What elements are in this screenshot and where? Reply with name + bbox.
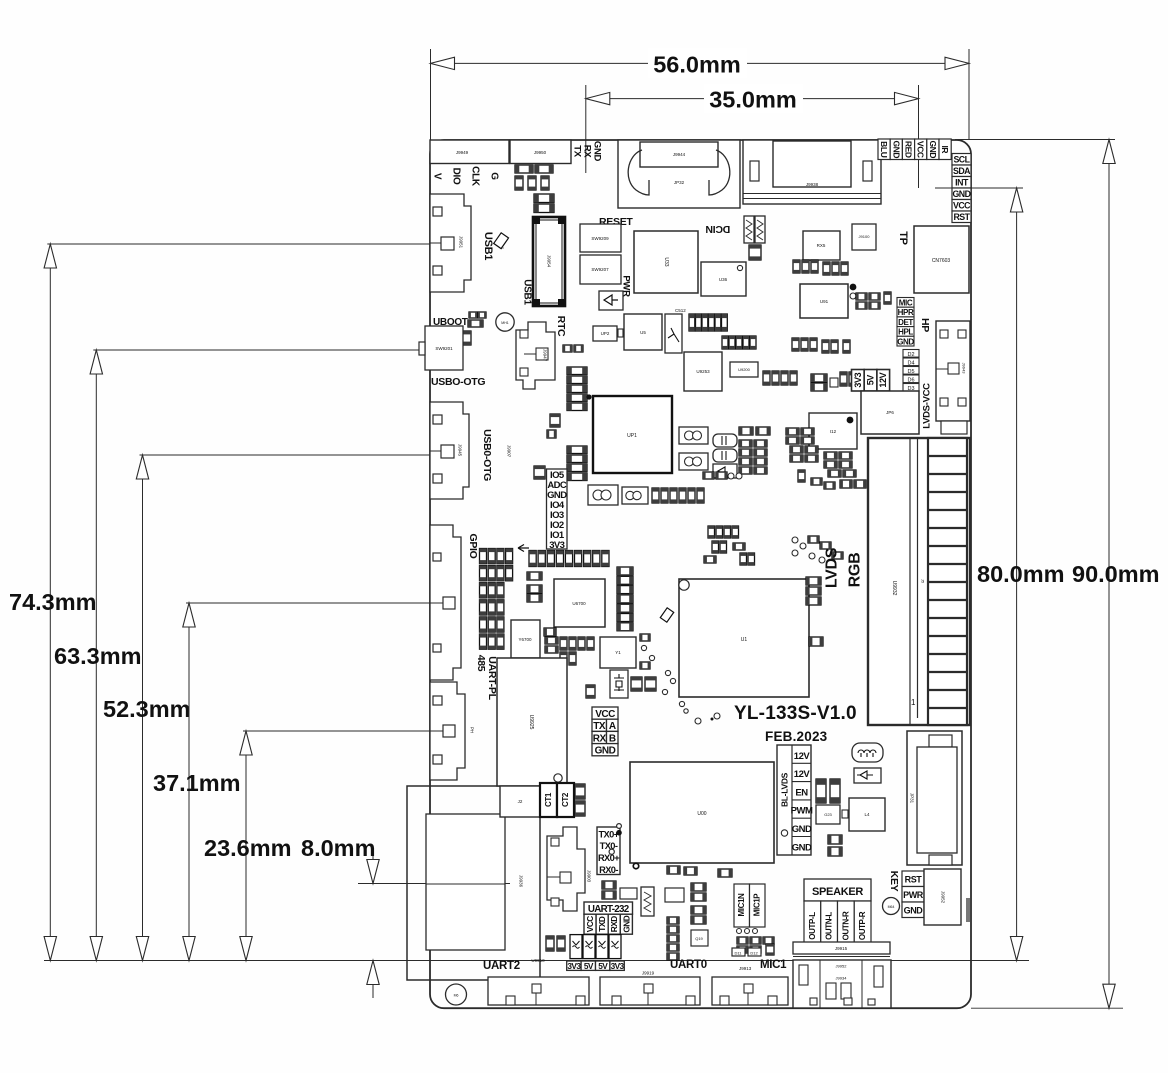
svg-text:RX5: RX5 — [817, 243, 826, 248]
connector J9939 — [407, 786, 540, 980]
capacitor row C95x — [793, 260, 848, 275]
svg-text:A: A — [609, 721, 616, 732]
capacitor row C51x — [722, 336, 756, 349]
svg-text:UP2: UP2 — [601, 331, 610, 336]
svg-text:J9913: J9913 — [739, 966, 752, 971]
connector J9903 — [547, 827, 592, 911]
capacitor pair C9x — [631, 670, 676, 691]
svg-text:J9945: J9945 — [458, 444, 463, 457]
test point TP9 — [850, 284, 857, 299]
svg-text:5V: 5V — [866, 375, 876, 386]
chip UP1 — [593, 396, 672, 473]
svg-text:BLU: BLU — [879, 141, 889, 158]
connector BL-LVDS — [777, 745, 813, 855]
svg-text:B: B — [609, 733, 616, 744]
label RESET — [599, 216, 633, 228]
svg-text:D11: D11 — [734, 951, 742, 956]
stack T004 — [567, 367, 587, 411]
capacitor C09 — [544, 628, 556, 636]
chip U9925 — [497, 658, 567, 786]
svg-text:RST: RST — [953, 212, 970, 222]
svg-text:GND: GND — [595, 746, 616, 757]
svg-text:TX: TX — [572, 145, 583, 158]
svg-text:J9943: J9943 — [962, 363, 967, 375]
connector J9932 LVDS — [868, 438, 970, 725]
pin label TXD uart — [596, 914, 608, 934]
label J9907 — [507, 445, 512, 458]
chip CN7603 — [914, 226, 969, 293]
label UART-232 — [584, 902, 633, 915]
diode DU9 — [534, 194, 554, 203]
svg-text:GND: GND — [928, 140, 938, 158]
svg-text:J9944: J9944 — [673, 152, 686, 157]
pin label V — [432, 173, 443, 180]
svg-text:RX: RX — [582, 145, 593, 159]
dimension 80.0mm — [977, 188, 1065, 961]
svg-text:I12: I12 — [830, 429, 837, 434]
switch SW9207 — [580, 255, 621, 284]
connector J9919 UART0 — [600, 971, 700, 1006]
svg-text:U36: U36 — [719, 277, 728, 282]
svg-text:J9919: J9919 — [642, 971, 655, 976]
pin label TX — [572, 145, 583, 158]
pin label GND — [927, 139, 939, 160]
pin label IO4 — [550, 500, 565, 511]
svg-text:RX0-: RX0- — [599, 865, 618, 875]
pin label DIO — [451, 168, 462, 185]
pin label BLU — [878, 139, 890, 160]
resistor cluster R401x — [824, 452, 856, 477]
label TP — [897, 231, 909, 244]
resistor R9302 — [691, 883, 706, 901]
dimension 63.3mm — [54, 350, 142, 961]
resistor R275 — [811, 374, 838, 391]
pin label 5V — [864, 370, 877, 392]
resistor cluster R40x — [792, 338, 850, 353]
hole CT — [554, 774, 562, 782]
svg-text:J9952: J9952 — [836, 964, 848, 969]
svg-text:USBO-OTG: USBO-OTG — [431, 376, 485, 388]
svg-text:TX0+: TX0+ — [598, 829, 619, 839]
svg-text:TXD: TXD — [597, 916, 607, 932]
dimension 8.0mm extension line — [358, 883, 510, 885]
svg-text:J9903: J9903 — [587, 870, 592, 883]
svg-text:J9954: J9954 — [547, 255, 552, 268]
part diag2 — [660, 608, 673, 622]
label GPIO — [467, 533, 479, 558]
svg-text:63.3mm: 63.3mm — [54, 643, 142, 669]
label J9946 — [500, 237, 505, 250]
svg-text:DIO: DIO — [451, 168, 462, 185]
table VCC TX RX GND — [592, 707, 618, 757]
mount hole M6 — [446, 984, 467, 1005]
resistor column R23x — [667, 917, 679, 960]
chip L4 — [849, 798, 885, 831]
svg-text:SW9207: SW9207 — [591, 267, 609, 272]
switch SW9209 — [580, 224, 621, 252]
battery holder J9947 — [516, 322, 555, 389]
svg-text:M64: M64 — [888, 905, 895, 909]
resistor R5 — [586, 685, 595, 698]
svg-text:RED: RED — [904, 141, 914, 158]
svg-text:UART-PL: UART-PL — [486, 656, 498, 700]
dimension 35.0mm extension line left — [585, 85, 587, 173]
resistor R02 — [718, 869, 732, 877]
svg-text:TP: TP — [897, 231, 909, 244]
inductor L13 — [641, 887, 654, 916]
pin label GND — [890, 139, 902, 160]
svg-text:INT: INT — [955, 178, 969, 188]
dimension 8.0mm — [301, 835, 379, 998]
svg-text:D5: D5 — [907, 369, 914, 375]
connector J9954 — [533, 217, 565, 306]
svg-text:RX: RX — [593, 733, 607, 744]
svg-text:OUTP-R: OUTP-R — [858, 911, 867, 940]
chip U9253 — [684, 352, 722, 391]
svg-text:MH1: MH1 — [501, 321, 508, 325]
dimension 80.0mm top extension — [935, 187, 1023, 189]
svg-text:UP1: UP1 — [627, 433, 637, 439]
svg-text:OUTP-L: OUTP-L — [808, 912, 817, 940]
chip U9300 — [620, 888, 637, 899]
chip Q19 — [691, 930, 708, 946]
stack RP34 — [567, 446, 587, 481]
resistor T641 — [469, 312, 486, 318]
board outline — [430, 140, 971, 1008]
shadow edge — [966, 898, 970, 922]
svg-text:JP31: JP31 — [910, 793, 915, 804]
svg-text:J2: J2 — [518, 799, 523, 804]
connector J9952 side — [924, 869, 961, 925]
dot via UP1 — [586, 394, 591, 399]
svg-text:U9932: U9932 — [891, 581, 897, 596]
connector UART-PL header — [430, 682, 475, 780]
via TX0 — [609, 824, 640, 870]
svg-text:U9925: U9925 — [528, 715, 534, 730]
via top-left U1 — [679, 580, 689, 590]
dimension 56.0mm extension line right — [968, 49, 970, 140]
vias near U1 bottom — [662, 689, 720, 724]
svg-text:GND: GND — [904, 906, 924, 916]
connector GPIO header — [430, 525, 461, 680]
resistor row R92x — [763, 371, 797, 385]
part diag — [494, 233, 509, 249]
pin label ADC — [547, 480, 567, 491]
svg-text:J9949: J9949 — [456, 150, 469, 155]
label PWR — [621, 275, 632, 297]
diode D9 — [854, 768, 881, 783]
connector U9910 UART2 — [488, 958, 589, 1005]
pin label GND — [547, 490, 567, 501]
dimension 90.0mm top extension — [955, 139, 1115, 141]
svg-text:L4: L4 — [864, 812, 870, 817]
label USB1 rotated — [522, 279, 533, 305]
svg-text:V: V — [432, 173, 443, 180]
label MIC1N — [734, 884, 750, 927]
capacitor cluster C41x — [798, 470, 835, 489]
resistor RP1 — [602, 891, 616, 899]
mount hole MH1 — [496, 313, 514, 331]
svg-text:TX0-: TX0- — [600, 841, 618, 851]
dimension 37.1mm — [153, 603, 241, 961]
dimension baseline — [44, 960, 1029, 962]
svg-text:GND: GND — [952, 189, 970, 199]
svg-text:OUTN-L: OUTN-L — [825, 912, 834, 940]
svg-text:J9950: J9950 — [534, 150, 547, 155]
svg-text:RX0+: RX0+ — [598, 853, 620, 863]
label MIC1 — [760, 959, 787, 971]
svg-text:OUTN-R: OUTN-R — [841, 911, 850, 940]
pin label INT — [952, 177, 971, 189]
dimension 35.0mm extension line right — [918, 85, 920, 188]
transistor Q512 — [665, 314, 682, 353]
pin label VCC uart — [584, 914, 596, 934]
svg-text:J9947: J9947 — [543, 349, 548, 362]
connector J9938 — [743, 140, 881, 204]
diode D6 — [903, 375, 919, 383]
inductor L9505 — [755, 216, 765, 243]
svg-text:CLK: CLK — [470, 166, 481, 187]
svg-text:PWR: PWR — [903, 890, 924, 900]
pin label GND uart — [620, 914, 632, 934]
svg-text:HP: HP — [919, 318, 931, 332]
pin label RX0+ — [598, 853, 620, 863]
svg-text:U00: U00 — [697, 811, 706, 817]
dimension 63.3mm extension line — [93, 349, 445, 351]
crystal Y6700 — [511, 620, 540, 658]
svg-text:J9907: J9907 — [507, 445, 512, 458]
svg-text:GND: GND — [792, 824, 812, 835]
svg-text:CN7603: CN7603 — [932, 258, 951, 264]
capacitor T4001 — [739, 427, 770, 435]
label USB0-OTG — [431, 376, 485, 388]
inductor coil row — [588, 485, 618, 505]
pin label IR — [939, 139, 951, 160]
svg-text:VCC: VCC — [953, 201, 971, 211]
svg-text:3V3: 3V3 — [549, 540, 564, 551]
chip UP2 — [593, 326, 623, 341]
transistor Q9300 — [665, 888, 684, 902]
svg-text:3V3: 3V3 — [611, 961, 625, 971]
label C512 — [675, 308, 686, 313]
svg-text:CT2: CT2 — [561, 792, 570, 807]
svg-text:1: 1 — [911, 698, 916, 707]
svg-text:LVDS: LVDS — [824, 547, 841, 588]
svg-text:3V3: 3V3 — [567, 961, 581, 971]
dimension 52.3mm extension line — [140, 454, 449, 456]
dimension 37.1mm extension line — [186, 602, 448, 604]
label DCIN — [706, 223, 730, 235]
pin label GND — [592, 141, 603, 162]
label SPEAKER — [804, 879, 871, 901]
pin label VCC — [915, 139, 927, 160]
svg-text:UART-232: UART-232 — [588, 904, 630, 915]
svg-text:J9952: J9952 — [941, 891, 946, 904]
svg-text:DCIN: DCIN — [706, 223, 730, 235]
jumper CT1 — [540, 783, 557, 817]
svg-text:U9200: U9200 — [738, 367, 751, 372]
connector JP31 — [907, 731, 962, 865]
svg-text:RST: RST — [905, 875, 923, 885]
svg-text:CT1: CT1 — [544, 792, 553, 807]
diode D2 — [903, 350, 919, 358]
svg-text:G: G — [489, 172, 500, 180]
svg-text:LVDS-VCC: LVDS-VCC — [922, 383, 933, 429]
capacitor C140 — [828, 835, 842, 856]
svg-text:RTC: RTC — [555, 316, 567, 337]
inductor coil top — [852, 743, 883, 762]
pin label RX — [582, 145, 593, 159]
svg-text:SW9201: SW9201 — [435, 346, 453, 351]
pin label GND — [952, 188, 971, 200]
capacitor C947 — [534, 466, 545, 479]
svg-text:U33: U33 — [663, 257, 669, 266]
pin label G — [489, 172, 500, 180]
svg-text:RXD: RXD — [609, 916, 619, 933]
pin label 5V power — [581, 961, 595, 971]
parts above U1 — [704, 526, 755, 565]
svg-text:RGB: RGB — [847, 553, 864, 588]
svg-text:J9951: J9951 — [459, 236, 464, 249]
chip U33 — [634, 231, 698, 293]
svg-text:M6: M6 — [454, 994, 459, 998]
svg-text:SPEAKER: SPEAKER — [812, 886, 863, 898]
svg-text:12V: 12V — [878, 372, 888, 387]
pin label IO3 — [550, 510, 564, 521]
chip U5 — [624, 314, 662, 350]
pin label SDA — [952, 165, 971, 177]
chip U6700 — [554, 579, 605, 627]
label UART2 — [483, 960, 520, 972]
switch SW9201 — [419, 326, 463, 370]
svg-text:KEY: KEY — [888, 871, 900, 892]
crystal X1 — [610, 670, 628, 698]
resistor RS61b — [535, 165, 553, 173]
label YL-133S-V1.0 — [734, 703, 857, 724]
resistor R93 — [563, 345, 583, 352]
svg-text:23.6mm: 23.6mm — [204, 835, 292, 861]
connector J9949 — [430, 140, 509, 164]
label LVDS — [824, 547, 841, 588]
label KEY — [888, 871, 900, 892]
pin label 3V3 power — [567, 961, 582, 971]
svg-text:U1: U1 — [741, 637, 748, 643]
pin label CLK — [470, 166, 481, 187]
chip U36 — [701, 262, 746, 296]
connector J9944 JP32 — [618, 140, 740, 208]
label UART0 — [670, 959, 707, 971]
svg-text:JP32: JP32 — [674, 180, 685, 185]
capacitor pair CD — [703, 472, 742, 479]
label MIC1P — [750, 884, 766, 927]
svg-text:VCC: VCC — [585, 916, 595, 933]
svg-text:VCC: VCC — [595, 709, 615, 720]
svg-text:GPIO: GPIO — [467, 533, 479, 558]
svg-text:Y1: Y1 — [615, 650, 621, 655]
label HP — [919, 318, 931, 332]
svg-text:YL-133S-V1.0: YL-133S-V1.0 — [734, 703, 857, 724]
diode D4 — [903, 358, 919, 366]
connector J9950 — [510, 140, 571, 164]
pin label 12V — [877, 370, 890, 392]
svg-text:3V3: 3V3 — [853, 372, 863, 387]
pin label GND key — [902, 902, 924, 918]
svg-text:Y6700: Y6700 — [518, 637, 532, 642]
dimension 90.0mm — [1072, 140, 1160, 1009]
resistor cluster R340 — [739, 440, 767, 474]
svg-text:USB1: USB1 — [522, 279, 533, 305]
svg-text:U5: U5 — [640, 330, 646, 335]
dimension 23.6mm extension line — [243, 730, 448, 732]
pin label VCC — [952, 200, 971, 212]
jumper CT2 — [557, 783, 574, 817]
label UBOOT — [433, 317, 468, 328]
svg-text:MIC1N: MIC1N — [737, 893, 746, 917]
parts below MIC — [737, 929, 775, 956]
chip G23 — [816, 805, 848, 824]
svg-text:C512: C512 — [675, 308, 686, 313]
inductor L8b — [679, 453, 708, 470]
label 485 — [475, 655, 487, 672]
pin label TX0- — [600, 841, 618, 851]
label USB0-OTG rotated — [481, 429, 493, 481]
inductor L9504 — [744, 216, 754, 243]
svg-text:GND: GND — [897, 337, 914, 346]
connector J9913 MIC1 — [712, 977, 788, 1005]
pin label RX0- — [599, 865, 618, 875]
svg-text:8.0mm: 8.0mm — [301, 835, 375, 861]
capacitor C9004 — [840, 480, 866, 488]
pin label IO2 — [550, 520, 564, 531]
pin label RXD uart — [608, 914, 620, 934]
diode D11 D12 — [732, 948, 761, 956]
svg-text:90.0mm: 90.0mm — [1072, 561, 1160, 587]
resistor T104 — [806, 577, 821, 605]
chip U9200 — [730, 362, 758, 377]
svg-text:U6700: U6700 — [572, 601, 586, 606]
svg-text:J9936: J9936 — [519, 875, 524, 888]
diode D3 — [903, 384, 919, 392]
diode D5 — [903, 367, 919, 375]
chip Y1 — [600, 637, 636, 668]
svg-text:G23: G23 — [824, 812, 832, 817]
capacitor row C50x — [689, 314, 727, 331]
capacitor C92x — [840, 372, 856, 386]
connector J9945 USB0-OTG — [430, 402, 469, 499]
svg-text:USB1: USB1 — [482, 232, 494, 260]
capacitor C9502 — [749, 245, 761, 260]
diode PWR LED — [599, 291, 623, 310]
pin label 3V3 — [549, 540, 564, 551]
svg-text:80.0mm: 80.0mm — [977, 561, 1065, 587]
label USB1 — [482, 232, 494, 260]
svg-text:J9915: J9915 — [835, 946, 848, 951]
svg-text:Q19: Q19 — [695, 936, 703, 941]
parts right of Y1 — [640, 634, 655, 669]
chip JP6 — [861, 391, 919, 434]
svg-text:GND: GND — [891, 140, 901, 158]
svg-text:UART2: UART2 — [483, 960, 520, 972]
connector speaker pins — [804, 901, 871, 951]
label LVDS-VCC — [922, 383, 933, 429]
capacitor CP1 — [547, 430, 556, 438]
capacitor cluster C96x — [856, 292, 891, 309]
svg-text:D6: D6 — [907, 377, 914, 383]
pin label block IO — [547, 469, 568, 549]
parts above U1 right — [792, 536, 843, 563]
label FEB.2023 — [765, 729, 828, 744]
resistor R10x — [809, 637, 823, 646]
